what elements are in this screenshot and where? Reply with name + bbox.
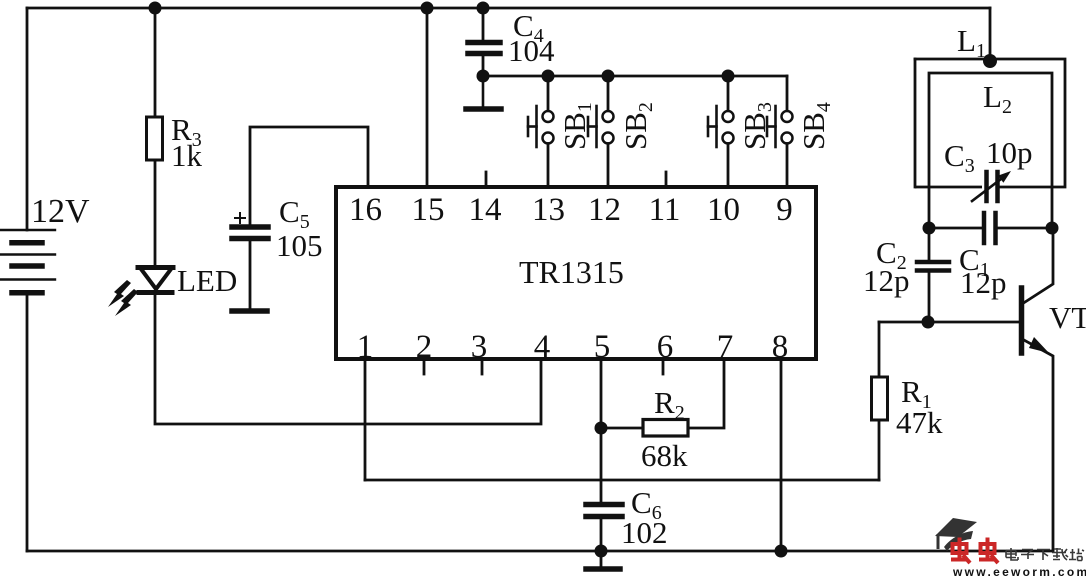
- wire left rail lower (battery - to ground rail): [26, 293, 29, 551]
- wire bottom ground rail: [27, 550, 1053, 553]
- node R2 / pin5: [595, 422, 608, 435]
- svg-text:SB3: SB3: [737, 102, 776, 150]
- svg-text:SB1: SB1: [557, 102, 596, 150]
- svg-text:68k: 68k: [641, 438, 688, 473]
- svg-text:5: 5: [594, 329, 611, 365]
- resistor R3: [147, 117, 163, 160]
- svg-text:1k: 1k: [171, 138, 203, 173]
- capacitor C1: [929, 213, 1052, 243]
- resistor R2: [643, 420, 688, 437]
- wire C2 top: [928, 228, 931, 262]
- svg-text:SB2: SB2: [618, 102, 657, 150]
- watermark 虫虫 (red bug characters): [951, 538, 998, 564]
- svg-text:L1: L1: [957, 23, 986, 62]
- svg-text:3: 3: [471, 329, 488, 365]
- 电: [1006, 548, 1018, 560]
- node pin8 / ground rail: [775, 545, 788, 558]
- svg-text:LED: LED: [177, 263, 237, 298]
- wire left rail upper (to battery +): [26, 8, 29, 230]
- wire R3 top: [154, 8, 157, 117]
- svg-text:L2: L2: [983, 79, 1012, 118]
- pushbutton SB4: [767, 76, 793, 186]
- wire C5 bottom: [249, 239, 252, 311]
- LED diode: [138, 268, 173, 293]
- svg-text:11: 11: [649, 192, 681, 228]
- svg-text:SB4: SB4: [796, 102, 835, 150]
- svg-text:4: 4: [534, 329, 551, 365]
- svg-text:12p: 12p: [960, 265, 1007, 300]
- wire top rail to L1: [989, 8, 992, 59]
- pin 14 stub: [485, 172, 488, 185]
- svg-text:12V: 12V: [31, 193, 90, 230]
- svg-text:14: 14: [469, 192, 502, 228]
- 下: [1037, 550, 1050, 561]
- svg-text:7: 7: [717, 329, 734, 365]
- 子: [1021, 550, 1034, 560]
- wire top supply rail: [27, 7, 990, 10]
- wire R2 left: [601, 427, 643, 430]
- transistor VT1: [1022, 228, 1054, 551]
- svg-text:8: 8: [772, 329, 789, 365]
- svg-text:1: 1: [357, 329, 374, 365]
- svg-text:12p: 12p: [863, 263, 910, 298]
- svg-text:6: 6: [657, 329, 674, 365]
- ground C6: [586, 551, 620, 569]
- svg-text:12: 12: [588, 192, 621, 228]
- pin numbers bottom row: [357, 329, 789, 365]
- svg-text:15: 15: [412, 192, 445, 228]
- wire pin 1 down: [364, 360, 367, 480]
- pin 6 stub: [662, 361, 665, 374]
- resistor R1: [872, 377, 888, 420]
- svg-text:104: 104: [508, 33, 555, 68]
- svg-text:VT1: VT1: [1049, 300, 1086, 339]
- node SB2: [602, 70, 615, 83]
- wire C6 bottom: [600, 516, 603, 551]
- node L1 top: [983, 54, 997, 68]
- wire R2 right to pin 7: [688, 360, 724, 428]
- wire LED cathode to pin 4: [155, 293, 541, 424]
- node C2 / base: [922, 316, 935, 329]
- pin 11 stub: [665, 172, 668, 185]
- wire pin 5 down through R2 node to C6: [600, 360, 603, 504]
- watermark 电子下载站 text: [1006, 548, 1084, 561]
- svg-text:13: 13: [532, 192, 565, 228]
- wire pin1 to R1 bottom: [365, 479, 879, 482]
- 站: [1069, 549, 1084, 561]
- 载: [1052, 548, 1068, 560]
- wire C2 bottom to base node: [928, 271, 931, 323]
- svg-text:16: 16: [349, 192, 382, 228]
- watermark logo graduation cap: [935, 518, 977, 551]
- wire base line: [879, 321, 1019, 324]
- wire R3 to LED: [154, 160, 157, 267]
- inductor L1 outer loop: [915, 59, 1065, 187]
- svg-text:www.eeworm.com: www.eeworm.com: [952, 565, 1086, 577]
- pushbutton SB1: [528, 76, 554, 186]
- node C1 left: [923, 222, 936, 235]
- wire base node to R1: [878, 322, 881, 377]
- node top rail / C4: [477, 2, 490, 15]
- svg-text:C3: C3: [944, 138, 975, 177]
- wire SB feed rail: [483, 75, 787, 78]
- wire R1 bottom: [878, 420, 881, 480]
- LED light emission arrows: [108, 280, 138, 316]
- node SB3: [722, 70, 735, 83]
- pushbutton SB3: [708, 76, 734, 186]
- svg-text:2: 2: [416, 329, 433, 365]
- svg-text:10p: 10p: [986, 135, 1033, 170]
- ground C5: [232, 308, 267, 314]
- IC U1 TR1315: [336, 187, 816, 359]
- svg-text:R2: R2: [654, 385, 685, 424]
- capacitor C5 (electrolytic): [232, 213, 268, 239]
- svg-text:10: 10: [707, 192, 740, 228]
- node SB1: [542, 70, 555, 83]
- wire pin 15 to top rail: [426, 8, 429, 186]
- svg-text:TR1315: TR1315: [519, 254, 624, 290]
- node top rail / R3: [149, 2, 162, 15]
- capacitor C4: [468, 43, 500, 54]
- svg-text:102: 102: [621, 515, 668, 550]
- variable capacitor C3: [972, 171, 1011, 201]
- node C4 / SB rail: [477, 70, 490, 83]
- wire pin 8 down to ground rail: [780, 360, 783, 551]
- battery GB 12V: [0, 230, 55, 293]
- capacitor C2: [917, 262, 949, 271]
- pin 3 stub: [481, 361, 484, 374]
- inductor L2 inner loop: [929, 73, 1052, 228]
- node C1 right: [1046, 222, 1059, 235]
- svg-text:47k: 47k: [896, 405, 943, 440]
- pin 2 stub: [423, 361, 426, 374]
- wire C5 top to IC pin 16: [250, 127, 368, 227]
- capacitor C6: [586, 505, 622, 517]
- ground C4: [466, 76, 501, 109]
- pin numbers top row: [349, 192, 793, 228]
- node top rail / pin15: [421, 2, 434, 15]
- wire C4 bottom to SB rail: [482, 54, 485, 77]
- node C6 / ground rail: [595, 545, 608, 558]
- svg-text:9: 9: [776, 192, 793, 228]
- wire C4 top: [482, 8, 485, 42]
- svg-text:105: 105: [276, 228, 323, 263]
- pushbutton SB2: [588, 76, 614, 186]
